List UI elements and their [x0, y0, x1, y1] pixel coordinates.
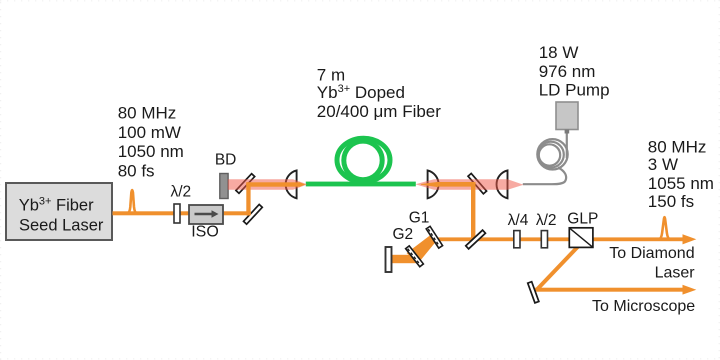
svg-text:λ/2: λ/2 — [536, 212, 557, 229]
orange compressor wedge G1 to G2 — [407, 235, 437, 264]
dichroic mirror M3 (pump combiner) — [468, 173, 487, 193]
mirror M2 (steers beam into amplifier) — [236, 174, 255, 194]
svg-text:80 MHz: 80 MHz — [648, 137, 707, 156]
svg-text:G2: G2 — [392, 226, 413, 243]
svg-text:1055 nm: 1055 nm — [648, 174, 714, 193]
pump fiber tail to output tip — [523, 168, 566, 185]
lens L2 (flat-left, convex-right) — [428, 170, 439, 198]
mirror M1 (steers seed beam up) — [244, 204, 263, 224]
faint dotted border right — [718, 0, 720, 360]
svg-text:GLP: GLP — [567, 211, 598, 228]
green fiber straight section — [306, 182, 416, 187]
beam dump BD — [220, 174, 228, 199]
orange amplified beam taper out of fiber — [421, 182, 438, 187]
green fiber coil inner loop — [344, 141, 382, 180]
svg-text:Yb3+ Doped: Yb3+ Doped — [317, 83, 405, 102]
isolator arrow — [195, 213, 213, 216]
svg-text:Yb3+ Fiber: Yb3+ Fiber — [19, 196, 94, 215]
isolator ISO box — [189, 205, 223, 224]
svg-text:80 MHz: 80 MHz — [118, 104, 177, 123]
green fiber coil outer loop — [337, 138, 390, 182]
half-wave plate (output) — [541, 231, 547, 248]
LD pump box — [556, 102, 578, 130]
GLP diagonal — [570, 228, 593, 247]
orange amplified beam to dichroic — [437, 182, 475, 187]
faint dotted border bottom — [0, 358, 720, 360]
svg-text:To Diamond: To Diamond — [609, 245, 694, 262]
svg-text:λ/2: λ/2 — [170, 183, 191, 200]
svg-text:80 fs: 80 fs — [118, 162, 155, 181]
svg-text:BD: BD — [215, 152, 237, 169]
orange beam GLP to pickoff mirror — [537, 246, 580, 291]
svg-text:G1: G1 — [409, 210, 430, 227]
svg-text:3 W: 3 W — [648, 155, 678, 174]
lens L1 (convex-left, flat-right) — [286, 170, 297, 198]
svg-text:976 nm: 976 nm — [539, 62, 596, 81]
svg-text:150 fs: 150 fs — [648, 192, 694, 211]
orange beam taper into fiber — [300, 182, 306, 186]
orange vertical beam M1 to M2 — [246, 182, 250, 215]
svg-text:To Microscope: To Microscope — [592, 298, 695, 315]
pump fiber coil loop b — [538, 142, 564, 168]
pump fiber coil loop a — [537, 139, 567, 169]
half-wave plate (seed) — [174, 204, 180, 223]
mirror M4 (sends beam to compressor / output) — [466, 230, 486, 249]
pink pump beam from LD into fiber end — [415, 179, 523, 190]
faint dotted border top — [0, 0, 720, 2]
orange beam to Microscope arrow — [535, 288, 683, 292]
faint dotted border left — [0, 2, 2, 360]
arrowhead To Microscope — [683, 285, 697, 295]
svg-text:ISO: ISO — [191, 224, 219, 241]
pump lens L3 (convex-left, flat-right) — [497, 170, 508, 198]
svg-text:18 W: 18 W — [539, 43, 579, 62]
svg-text:7 m: 7 m — [317, 65, 345, 84]
pump fiber coil loop c — [539, 144, 560, 165]
grating G2 — [406, 246, 424, 267]
orange main output beam to Diamond arrow — [434, 237, 684, 241]
isolator arrow head — [212, 210, 219, 217]
svg-text:Laser: Laser — [655, 264, 696, 281]
seed pulse glyph — [127, 190, 136, 213]
seed laser box — [6, 183, 112, 240]
orange vertical beam dichroic down to M4 — [471, 182, 475, 241]
LD pump box fiber nub — [565, 130, 570, 134]
svg-text:20/400 μm Fiber: 20/400 μm Fiber — [317, 102, 441, 121]
orange beam M2 to fiber input — [246, 182, 300, 186]
pink pump beam into amplifier (BD to fiber tip) — [228, 179, 308, 190]
GLP polarizer cube — [569, 228, 593, 248]
grating G1 — [426, 226, 442, 248]
orange seed beam — [113, 211, 251, 215]
svg-text:λ/4: λ/4 — [508, 212, 529, 229]
svg-text:1050 nm: 1050 nm — [118, 142, 184, 161]
retro mirror (compressor end mirror) — [386, 247, 392, 272]
svg-text:100 mW: 100 mW — [118, 123, 181, 142]
svg-text:Seed Laser: Seed Laser — [19, 216, 104, 234]
orange compressor band G2 to retro mirror — [392, 255, 416, 263]
pump fiber lead from LD box — [566, 129, 568, 158]
arrowhead To Diamond — [683, 234, 697, 244]
svg-text:LD Pump: LD Pump — [539, 80, 610, 99]
pickoff mirror M5 — [528, 282, 539, 303]
quarter-wave plate — [514, 231, 520, 248]
output pulse glyph — [659, 217, 670, 239]
